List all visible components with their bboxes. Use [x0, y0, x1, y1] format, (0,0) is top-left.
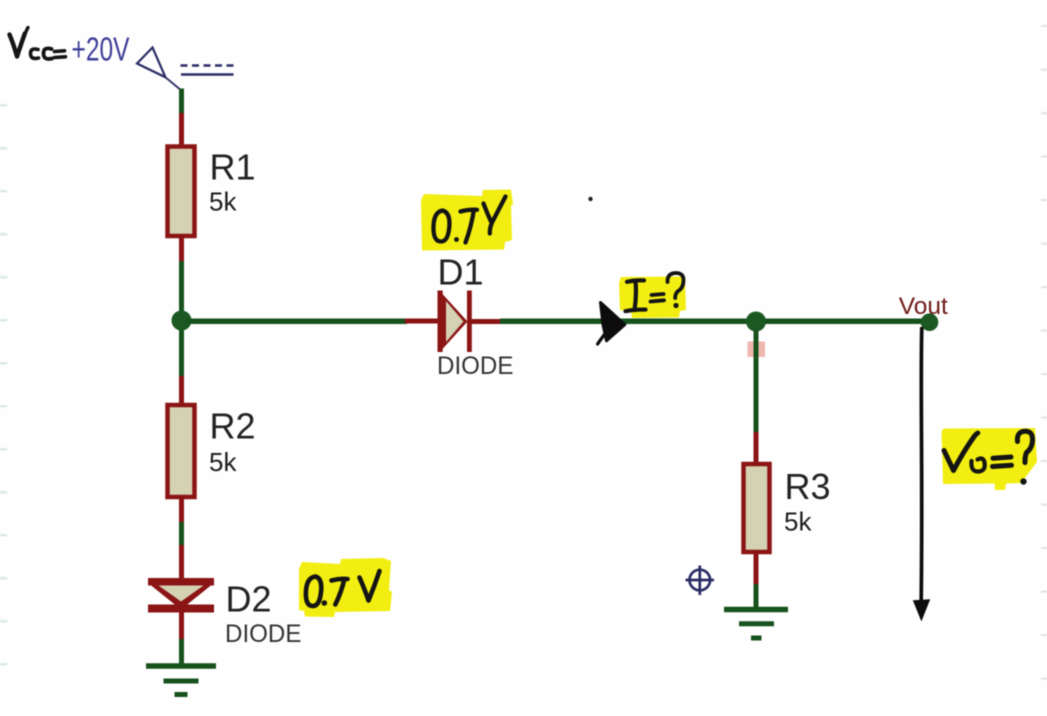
ground below R3 — [724, 610, 788, 639]
wire red into D1 — [405, 319, 440, 324]
svg-text:DIODE: DIODE — [437, 352, 514, 380]
svg-text:DIODE: DIODE — [225, 620, 302, 648]
dashed mark — [181, 64, 235, 67]
ground below D2 — [146, 666, 216, 695]
highlighter Vo=? — [942, 428, 1038, 490]
wire green below node — [179, 330, 184, 378]
svg-text:5k: 5k — [209, 187, 237, 217]
wire green node B to Vout — [765, 319, 922, 325]
svg-text:Vout: Vout — [899, 293, 948, 320]
svg-text:D2: D2 — [226, 579, 272, 620]
wire green node to D1 — [186, 318, 407, 324]
wire green stub below power — [179, 89, 184, 117]
wire green to ground — [179, 639, 184, 665]
wire red to R2 — [179, 376, 184, 406]
wire red to R3 — [754, 432, 759, 465]
svg-text:+20V: +20V — [72, 31, 130, 68]
wire green node B down — [754, 330, 759, 434]
red marker smudge on wire — [748, 342, 754, 358]
wire green to ground — [754, 584, 759, 609]
stray ink dot — [588, 197, 592, 201]
svg-text:R1: R1 — [210, 147, 256, 188]
node junction B — [746, 312, 766, 332]
hand-drawn Vout arrow — [919, 327, 923, 600]
handwritten label Vcc= — [10, 28, 66, 59]
handwritten Vo = ? — [944, 431, 1033, 471]
wire red to D2 — [179, 545, 184, 580]
svg-text:5k: 5k — [784, 507, 812, 537]
svg-text:D1: D1 — [438, 252, 484, 293]
power terminal lead — [166, 77, 181, 90]
svg-text:5k: 5k — [209, 447, 237, 477]
resistor R3 — [744, 464, 770, 552]
node junction A — [172, 311, 192, 331]
wire green D1 to node B — [500, 319, 748, 325]
resistor R1 — [168, 147, 195, 237]
wire red below D2 — [179, 612, 184, 641]
wire green segment — [179, 522, 184, 547]
solid mark — [181, 73, 234, 76]
svg-text:R2: R2 — [210, 406, 256, 447]
origin crosshair marker — [686, 566, 715, 596]
wire red to R1 — [179, 113, 184, 149]
node Vout dot — [921, 313, 939, 331]
handwritten current arrowhead on wire — [601, 303, 625, 341]
wire red out of D1 — [471, 319, 503, 324]
diode D2 — [148, 578, 214, 586]
diode D1 — [438, 291, 443, 353]
highlighter next to D2 — [299, 558, 392, 617]
wire green to node — [179, 261, 184, 311]
svg-text:R3: R3 — [785, 466, 831, 507]
handwritten I = ? — [626, 273, 684, 311]
wire red below R2 — [179, 496, 184, 524]
resistor R2 — [168, 405, 195, 497]
grid ticks left edge — [0, 104, 7, 665]
highlighter above D1 — [421, 190, 513, 251]
power terminal triangle — [137, 48, 166, 78]
handwritten 0.7 V above D1 — [433, 197, 505, 243]
highlighter I=? — [619, 277, 686, 319]
grid ticks right edge — [1041, 25, 1047, 680]
wire red below R1 — [179, 234, 184, 263]
wire red below R3 — [754, 552, 759, 586]
handwritten 0.7 V next to D2 — [306, 571, 380, 606]
